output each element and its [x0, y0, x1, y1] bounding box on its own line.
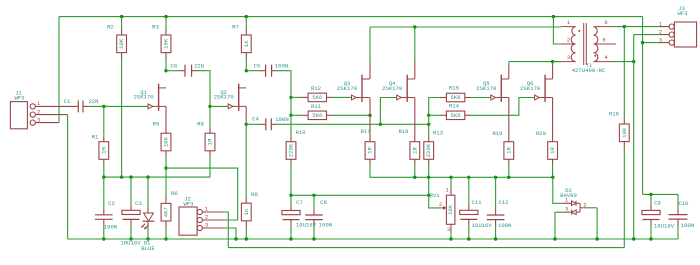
svg-text:3: 3 [567, 54, 570, 61]
wire J1 pin1 to C1 [35, 105, 78, 107]
junction R1/C2/bus [102, 175, 105, 178]
svg-text:2SK170: 2SK170 [520, 85, 541, 92]
wire Q5 source to R19 [508, 98, 510, 136]
junction R11/Q3 source [368, 114, 371, 117]
svg-text:10U16V: 10U16V [654, 223, 675, 230]
resistor R15 [446, 85, 464, 102]
svg-text:10K: 10K [621, 127, 628, 138]
wire RV1 pin1 lead [450, 177, 452, 189]
transformer T1 42TU400-RC [561, 19, 616, 74]
wire C12 top lead [495, 177, 497, 209]
svg-text:1R: 1R [549, 147, 556, 154]
wire R9 bottom lead [209, 151, 211, 157]
wire RV1 pin3 lead [450, 224, 452, 232]
svg-text:2SK170: 2SK170 [337, 85, 358, 92]
wire R13 bottom lead [428, 159, 430, 165]
wire C2 top lead [103, 177, 105, 209]
wire C10 bottom lead [677, 219, 679, 226]
svg-text:1K: 1K [243, 40, 250, 47]
wire R18 bottom lead [414, 159, 416, 165]
svg-text:C2: C2 [108, 200, 115, 207]
wire Q1 drain to C6 [166, 70, 179, 72]
junction D1/GND rail [146, 237, 149, 240]
wire R2 top lead [121, 17, 123, 29]
wire C2 bottom lead [103, 219, 105, 226]
svg-text:R2: R2 [107, 23, 114, 30]
wire V+ to C9/C10 [643, 193, 678, 195]
svg-text:22N: 22N [88, 98, 98, 105]
svg-text:2SK170: 2SK170 [476, 85, 497, 92]
junction R2/top rail [120, 15, 123, 18]
resistor R7 [232, 23, 251, 52]
svg-text:C4: C4 [252, 116, 259, 123]
wire R17 bottom lead [369, 159, 371, 165]
wire Q4 gate to feedback node [380, 98, 396, 125]
junction C6/Q2-gate/R9 [208, 105, 211, 108]
svg-text:2SK170: 2SK170 [134, 94, 155, 101]
wire Q5 drain pin [508, 65, 510, 79]
svg-text:C11: C11 [471, 199, 482, 206]
svg-text:1R: 1R [411, 147, 418, 154]
resistor R20 [536, 130, 558, 159]
wire C3 top lead [130, 177, 132, 204]
wire pin4 to J3 pin2 [634, 34, 660, 36]
wire R15 left to column [429, 98, 441, 116]
wire C1 to Q1 gate [88, 105, 148, 107]
wire C8 bottom lead [313, 220, 315, 226]
svg-text:5K6: 5K6 [312, 94, 322, 101]
wire pin4 vertical [633, 35, 635, 239]
junction C8/GND rail [312, 237, 315, 240]
junction pin4/GND rail [632, 237, 635, 240]
wire C10 top lead [677, 194, 679, 208]
svg-text:C5: C5 [254, 63, 261, 70]
junction R5/R6/J2-pin2 bus [164, 166, 167, 169]
junction Q4 drain [413, 25, 416, 28]
svg-text:C10: C10 [678, 200, 689, 207]
wire Q3 source to R17 [369, 98, 371, 136]
svg-text:2: 2 [659, 28, 662, 35]
svg-text:1M: 1M [100, 147, 107, 154]
svg-text:WF3: WF3 [677, 10, 687, 17]
resistor R5 [153, 120, 171, 151]
junction C7-rail/RV1 wiper [427, 194, 430, 197]
wire down to R8 [245, 124, 247, 197]
svg-text:2SK170: 2SK170 [214, 94, 235, 101]
resistor R16 [609, 110, 629, 141]
wire R9 top lead [209, 106, 211, 127]
resistor R3 [152, 23, 171, 52]
svg-text:R20: R20 [536, 130, 547, 137]
wire GND bottom rail [68, 238, 678, 240]
svg-text:10K: 10K [118, 38, 125, 49]
svg-text:220K: 220K [288, 143, 295, 157]
svg-text:R15: R15 [449, 85, 459, 92]
svg-text:WF3: WF3 [14, 94, 24, 101]
resistor R19 [492, 130, 513, 159]
wire R15 to Q5 gate [471, 97, 491, 99]
junction R13/mid rail/RV1 net [427, 176, 430, 179]
svg-text:3: 3 [659, 36, 662, 43]
svg-text:1R: 1R [505, 147, 512, 154]
potentiometer RV1 10K [430, 187, 455, 234]
wire Q2 drain to C5 [246, 70, 259, 72]
junction C7/GND rail [289, 237, 292, 240]
wire C11 bottom lead [468, 219, 470, 226]
svg-text:10U16V: 10U16V [296, 222, 317, 229]
svg-text:42TU400-RC: 42TU400-RC [572, 67, 606, 74]
svg-text:10U16V: 10U16V [120, 240, 141, 247]
wire R12 left lead [291, 96, 302, 98]
wire J2 pin1 stub [202, 211, 222, 213]
svg-text:3: 3 [447, 226, 450, 233]
junction T1 centre-tap/top rail [552, 15, 555, 18]
svg-text:R19: R19 [492, 130, 502, 137]
wire C3 bottom lead [130, 219, 132, 226]
resistor R11 [308, 103, 326, 120]
wire C7 top lead [290, 195, 292, 204]
wire J2-pin1/R16 bottom rail [228, 247, 624, 249]
junction R7/Q2 drain/C5 [245, 69, 248, 72]
svg-text:C3: C3 [135, 200, 142, 207]
svg-text:2: 2 [583, 201, 586, 208]
svg-text:R6: R6 [171, 190, 178, 197]
junction R14 left [427, 114, 430, 117]
wire C7 bottom lead [290, 220, 292, 226]
wire R11 right lead [327, 114, 333, 116]
wire R12 right lead [327, 96, 333, 98]
junction R12 left [289, 96, 292, 99]
svg-text:3: 3 [205, 222, 208, 229]
wire D2 pin1 net [553, 177, 564, 203]
svg-text:R3: R3 [152, 23, 159, 30]
resistor R14 [446, 103, 464, 120]
svg-text:1: 1 [567, 19, 571, 26]
svg-text:C7: C7 [296, 199, 303, 206]
wire C6 to Q2 gate [197, 71, 210, 107]
svg-text:100N: 100N [498, 222, 511, 229]
capacitor C10 [669, 200, 695, 229]
svg-text:2: 2 [37, 108, 40, 115]
wire to C4 [246, 123, 260, 125]
svg-text:C1: C1 [64, 98, 71, 105]
wire bias bus up to R9 [209, 157, 211, 177]
svg-text:C6: C6 [171, 63, 178, 70]
svg-text:2: 2 [567, 36, 570, 43]
wire Q4 source to R18 [414, 98, 416, 136]
connector J2 WF3 [179, 196, 209, 236]
svg-text:5K6: 5K6 [451, 94, 461, 101]
wire mid rail to C7 rail [428, 177, 430, 195]
svg-text:BAV99: BAV99 [560, 192, 577, 199]
junction C1/R1/Q1-gate [102, 105, 105, 108]
junction C11/mid rail [467, 176, 470, 179]
svg-text:5K6: 5K6 [451, 112, 461, 119]
wire V+ right drop to C9/C10 [642, 17, 644, 195]
wire C4 to R13 top (feedback) [277, 123, 429, 125]
capacitor C4 [252, 116, 289, 131]
svg-text:WF3: WF3 [183, 201, 193, 208]
junction C3/GND rail [129, 237, 132, 240]
wire R11 left lead [291, 114, 302, 116]
wire R11 to Q3 source [333, 114, 371, 116]
connector J3 WF3 [659, 5, 697, 47]
junction V+/J3 pin3 [641, 41, 644, 44]
junction C12/mid rail [494, 176, 497, 179]
junction R13 top [427, 123, 430, 126]
wire R8 bottom lead [245, 221, 247, 228]
wire C4 right stub [271, 123, 277, 125]
svg-text:R5: R5 [153, 120, 160, 127]
wire to T1 pin3 [553, 61, 561, 63]
svg-text:C12: C12 [498, 199, 508, 206]
resistor R18 [398, 128, 419, 159]
resistor R17 [360, 128, 374, 159]
LED D1 BLUE [141, 213, 155, 252]
wire Q5/Q6 drains to T1 pin3 [509, 61, 561, 63]
wire R6 bottom lead [165, 221, 167, 228]
wire T1 pin6 to J3 pin1 [611, 26, 660, 28]
wire R14 right lead [465, 114, 471, 116]
wire T1 pin4 net [611, 61, 634, 63]
capacitor C9 (polarized) [642, 200, 675, 230]
svg-text:100N: 100N [275, 116, 288, 123]
svg-text:1: 1 [445, 187, 449, 194]
wire J2 pin3 to GND [225, 228, 236, 239]
svg-text:R17: R17 [360, 128, 370, 135]
wire top rail to T1 pin2 [553, 17, 561, 44]
wire C8 top lead [313, 195, 315, 209]
wire output mid rail [370, 165, 553, 177]
svg-text:R16: R16 [609, 110, 619, 117]
junction R3/Q1 drain/C6 [164, 69, 167, 72]
wire Q3/Q4 drains to T1 pin1 [370, 26, 561, 28]
wire J1 pin2 stub [35, 114, 67, 116]
wire R7 bottom lead [245, 53, 247, 59]
svg-text:10K: 10K [163, 136, 170, 147]
transistor Q3 2SK170 [337, 75, 370, 102]
svg-text:2: 2 [205, 214, 208, 221]
svg-text:R18: R18 [398, 128, 408, 135]
wire J2 pin1 to rail2 [222, 212, 228, 248]
resistor R12 [308, 85, 326, 102]
wire R16 to rail2 [623, 148, 625, 248]
wire R3 top lead [165, 17, 167, 29]
capacitor C5 [254, 63, 289, 77]
wire bus to J2 pin2 [166, 168, 238, 220]
resistor R1 [92, 134, 109, 160]
resistor R8 [241, 191, 257, 221]
svg-text:6: 6 [604, 19, 607, 26]
svg-text:5K6: 5K6 [312, 112, 322, 119]
wire R20 bottom lead [552, 159, 554, 165]
wire C5 right stub [272, 70, 277, 72]
wire D1 anode lead [147, 177, 149, 208]
resistor R10 [286, 129, 306, 160]
svg-text:C8: C8 [320, 199, 327, 206]
svg-text:1R: 1R [367, 147, 374, 154]
transistor Q2 2SK170 [214, 84, 247, 111]
junction C9/GND [649, 237, 652, 240]
svg-text:10U16V: 10U16V [472, 222, 493, 229]
svg-text:4: 4 [604, 54, 608, 61]
svg-text:R7: R7 [232, 23, 239, 30]
wire Q4 drain to rail [414, 27, 416, 62]
wire R1 top lead [103, 106, 105, 136]
wire R12 to Q3 gate [333, 96, 352, 98]
wire R1 bottom lead [103, 159, 105, 165]
wire R10 bottom lead [290, 159, 292, 165]
svg-text:R8: R8 [251, 191, 258, 198]
connector J1 WF3 [10, 89, 40, 129]
svg-text:15K: 15K [163, 38, 170, 49]
wire C12 bottom lead [495, 220, 497, 226]
svg-text:C9: C9 [654, 200, 661, 207]
capacitor C8 [305, 199, 332, 229]
junction R2/bus [120, 175, 123, 178]
svg-text:BLUE: BLUE [141, 245, 155, 252]
wire C9 bottom lead [650, 220, 652, 227]
junction pin6/R16 [623, 25, 626, 28]
capacitor C12 [487, 199, 512, 229]
svg-text:100N: 100N [319, 222, 332, 229]
junction R10/C7/mid rail [289, 194, 292, 197]
svg-text:2: 2 [439, 201, 442, 208]
capacitor C1 [64, 98, 99, 112]
junction C9 top [649, 193, 652, 196]
junction Q2-source/C4/R8 [245, 123, 248, 126]
wire C9 top lead [650, 194, 652, 204]
wire J2 pin2 stub [202, 219, 225, 221]
junction C11/GND [467, 237, 470, 240]
junction R18/mid rail [413, 176, 416, 179]
transistor Q5 2SK170 [476, 75, 509, 102]
wire R19 bottom lead [508, 159, 510, 165]
wire Q6 drain pin [552, 65, 554, 79]
capacitor C3 (polarized) [120, 200, 141, 247]
wire C6 right stub [192, 70, 197, 72]
wire C7/C8 rail [291, 194, 429, 196]
wire V+ down to J1 pin3 [58, 17, 60, 123]
capacitor C11 (polarized) [460, 199, 493, 229]
wire RV1 wiper net [429, 195, 438, 208]
wire R6 top lead [165, 168, 167, 197]
wire bias bus [104, 176, 210, 178]
svg-text:R11: R11 [311, 103, 322, 110]
svg-text:10K: 10K [447, 204, 454, 215]
wire R7 top lead [245, 17, 247, 29]
diode D2 BAV99 [560, 187, 587, 215]
junction RV1-pin3/GND [449, 237, 452, 240]
resistor R2 [107, 23, 126, 52]
transistor Q1 2SK170 [134, 84, 167, 111]
svg-text:R10: R10 [295, 129, 306, 136]
wire Q4 drain pin [414, 62, 416, 79]
junction C12/GND [494, 237, 497, 240]
junction D1/bus [146, 175, 149, 178]
wire R15 right lead [465, 97, 471, 99]
junction D2-pin3/GND [553, 237, 556, 240]
junction R7/top rail [245, 15, 248, 18]
wire C11 top lead [468, 177, 470, 204]
svg-text:2SK170: 2SK170 [382, 85, 403, 92]
svg-text:R9: R9 [197, 120, 204, 127]
wire D1 cathode lead [147, 221, 149, 228]
wire down to R10 [290, 115, 292, 135]
transistor Q4 2SK170 [382, 75, 415, 102]
junction R11 left [289, 114, 292, 117]
junction R8/GND rail [245, 237, 248, 240]
resistor R13 [424, 130, 443, 160]
wire R14 left lead [429, 114, 441, 116]
junction C8 top [312, 194, 315, 197]
wire R5 bottom lead [165, 151, 167, 157]
wire to R13 [428, 124, 430, 135]
svg-text:R13: R13 [433, 130, 443, 137]
svg-text:100N: 100N [104, 223, 117, 230]
junction Q4 gate tap [379, 123, 382, 126]
junction Q6 drain [551, 60, 554, 63]
wire R3 bottom lead [165, 53, 167, 59]
svg-text:4K7: 4K7 [163, 207, 170, 217]
svg-text:220K: 220K [425, 143, 432, 157]
svg-text:22N: 22N [194, 63, 204, 70]
wire pin6 net down to R16 [623, 27, 625, 118]
wire D2 pin2 net [586, 207, 597, 209]
wire Q6 source to R20 [552, 98, 554, 136]
junction RV1 pin1/mid rail [449, 176, 452, 179]
wire C5 to R12 [277, 71, 291, 98]
transistor Q6 2SK170 [520, 75, 553, 102]
junction C3/bus [129, 175, 132, 178]
wire D2 pin3 net [555, 212, 564, 239]
svg-text:100N: 100N [275, 63, 288, 70]
wire column down [428, 115, 430, 124]
junction J2-pin3/GND [234, 237, 237, 240]
wire V+ to J3 pin3 [643, 42, 660, 44]
junction D2-pin2/GND [595, 237, 598, 240]
svg-text:R14: R14 [449, 103, 460, 110]
svg-text:5: 5 [602, 36, 605, 43]
junction C2/GND rail [102, 237, 105, 240]
wire R16 bottom lead [623, 142, 625, 148]
svg-text:R1: R1 [92, 134, 99, 141]
wire J2 pin3 stub [202, 227, 225, 229]
wire J1 pin2 to GND rail [67, 115, 69, 239]
capacitor C2 [95, 200, 117, 231]
svg-text:3: 3 [565, 206, 568, 213]
svg-text:1M: 1M [207, 139, 214, 146]
svg-text:1K: 1K [243, 208, 250, 215]
wire Q1 source to R5 [165, 106, 167, 127]
svg-text:R12: R12 [311, 85, 321, 92]
wire Q3 drain pin [369, 62, 371, 79]
wire J1 pin3 stub [35, 122, 59, 124]
svg-text:RV1: RV1 [430, 192, 441, 199]
resistor R6 [161, 190, 178, 221]
junction R6/GND rail [164, 237, 167, 240]
wire R14 to Q6 gate [471, 98, 534, 116]
resistor R9 [197, 120, 215, 151]
wire C1 right stub [83, 105, 88, 107]
capacitor C6 [171, 63, 204, 77]
junction R19/mid rail [507, 176, 510, 179]
wire R2 bottom lead [121, 53, 123, 59]
wire Q6 drain up [552, 62, 554, 65]
junction pin4 net [632, 60, 635, 63]
junction R20/mid rail/D2 [551, 176, 554, 179]
svg-text:100N: 100N [681, 222, 694, 229]
